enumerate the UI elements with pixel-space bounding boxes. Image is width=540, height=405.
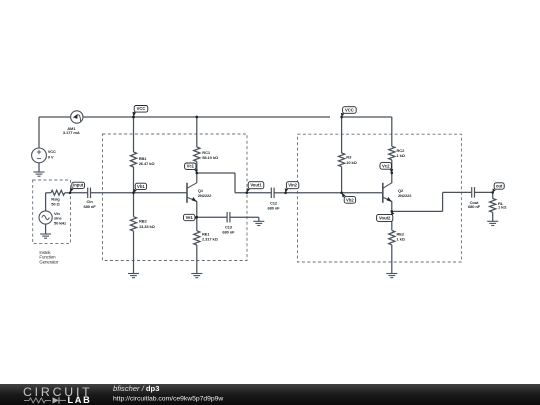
svg-text:Ve1: Ve1	[186, 215, 194, 220]
transistor Q1 2N2222	[187, 173, 212, 203]
wire RC1 top lead	[196, 117, 198, 147]
capacitor C13 680 nF	[222, 212, 235, 234]
wire input node to Cin	[70, 192, 88, 194]
svg-text:VCC: VCC	[48, 149, 56, 154]
svg-text:680 nF: 680 nF	[267, 205, 280, 210]
svg-text:680 nF: 680 nF	[468, 204, 481, 209]
svg-text:Vc1: Vc1	[187, 164, 195, 169]
wire RB1 to node Vb1	[133, 167, 135, 193]
resistor RB1 26.47 kOhm	[130, 152, 155, 167]
ground below RE1	[191, 274, 202, 278]
wire to Cout	[443, 191, 471, 193]
transistor Q2 2N2222	[383, 183, 412, 203]
wire Ve1 node to C13	[197, 216, 227, 218]
resistor RC1 58.19 kOhm	[194, 147, 219, 162]
wire RB1 top lead	[133, 117, 135, 152]
net flag Ve1	[184, 214, 199, 220]
wire Q1 emitter to Ve1 node	[196, 201, 198, 217]
CircuitLab logo text LAB	[68, 395, 92, 405]
svg-text:Vc2: Vc2	[382, 163, 390, 168]
wire C12 to Vin2 node	[275, 192, 286, 194]
ground below RB2	[128, 274, 139, 278]
net flag Vb2	[340, 192, 355, 204]
svg-text:3.177 mA: 3.177 mA	[63, 130, 80, 135]
wire Vout1 node to C12	[235, 192, 271, 194]
svg-text:58.19 kΩ: 58.19 kΩ	[202, 155, 219, 160]
wire RB2 top lead	[133, 193, 135, 217]
resistor RB2 13.33 kOhm	[130, 217, 155, 231]
CircuitLab logo resistor-diode squiggle	[24, 397, 66, 403]
resistor RL 1 kOhm	[490, 199, 508, 213]
footer url	[113, 396, 223, 403]
resistor R3 10 kOhm	[339, 153, 358, 167]
net flag out	[491, 183, 504, 194]
net flag Vout2	[377, 210, 395, 221]
ammeter AM1 3.177 mA	[63, 111, 83, 135]
svg-text:Generator: Generator	[39, 259, 59, 264]
wire RC2 to Q2 collector	[391, 160, 393, 183]
wire VCC source to rail	[38, 117, 40, 148]
wire Vout2 node to corner	[392, 210, 443, 212]
svg-text:13.33 kΩ: 13.33 kΩ	[139, 224, 156, 229]
svg-text:680 nF: 680 nF	[84, 204, 97, 209]
resistor RC2 1 kOhm	[389, 146, 406, 160]
ground below RE2	[386, 274, 397, 278]
junction at VCC flag 1	[132, 116, 135, 119]
wire RE1 top lead	[196, 217, 198, 231]
svg-text:50 Ω: 50 Ω	[51, 201, 60, 206]
net flag VCC at stage 2	[340, 107, 356, 119]
svg-text:1 kΩ: 1 kΩ	[397, 237, 406, 242]
svg-text:Vout1: Vout1	[250, 183, 262, 188]
svg-text:10 kΩ: 10 kΩ	[346, 160, 357, 165]
wire RE2 to ground	[391, 245, 393, 274]
wire RB2 to ground	[133, 231, 135, 273]
net flag Vin2	[284, 182, 298, 194]
wire corner up to output level	[442, 192, 444, 211]
resistor Rsig 50 Ohm	[51, 190, 65, 206]
svg-text:2N2222: 2N2222	[398, 193, 412, 198]
dashed enclosure stage 2 amplifier	[298, 134, 462, 262]
capacitor Cin 680 nF	[84, 188, 97, 209]
wire Q2 emitter to Vout2 node	[391, 201, 393, 211]
svg-text:9 V: 9 V	[48, 154, 54, 159]
svg-text:1 kΩ: 1 kΩ	[498, 205, 507, 210]
wire RE1 to ground	[196, 245, 198, 274]
svg-text:Vout2: Vout2	[379, 215, 391, 220]
svg-text:2.317 kΩ: 2.317 kΩ	[202, 237, 219, 242]
wire Cin to Vb1 node	[91, 192, 134, 194]
wire VCC source to ground	[38, 163, 40, 172]
wire VCC2 rail	[342, 116, 392, 118]
wire R3 top lead	[341, 117, 343, 153]
wire RC1 to collector node	[196, 162, 198, 174]
voltage source VCC 9V	[32, 148, 56, 163]
footer bar	[0, 384, 540, 405]
junction at RC1 rail tap	[195, 116, 198, 119]
ground below VCC source	[34, 172, 45, 176]
net flag input	[69, 182, 85, 194]
svg-text:bfischer / dp3: bfischer / dp3	[113, 384, 159, 393]
net flag Vb1	[132, 183, 146, 194]
wire Rsig right lead	[65, 192, 70, 194]
svg-text:50 kHz: 50 kHz	[54, 220, 66, 225]
capacitor C12 680 nF	[267, 188, 280, 211]
wire VCC top rail	[39, 116, 330, 118]
svg-text:VCC: VCC	[345, 107, 354, 112]
text Instek Function Generator	[39, 250, 59, 264]
capacitor Cout 680 nF	[468, 187, 481, 209]
resistor RE2 1 kOhm	[389, 230, 406, 244]
svg-text:Vin2: Vin2	[288, 183, 297, 188]
svg-text:Vb2: Vb2	[346, 197, 354, 202]
svg-text:VCC: VCC	[137, 106, 146, 111]
ground below Vin source	[40, 234, 51, 238]
svg-text:input: input	[73, 183, 84, 188]
ground right of C13	[253, 221, 264, 225]
ground below RL	[487, 221, 498, 225]
dashed enclosure stage 1 amplifier	[103, 134, 248, 261]
CircuitLab logo text CIRCUIT	[23, 385, 92, 399]
wire Vb1 node to Q1 base	[134, 192, 188, 194]
wire Vin source to ground	[45, 224, 47, 234]
wire Vin2 to Q2 base	[286, 192, 383, 194]
wire R3 to Vb2 node	[341, 167, 343, 193]
svg-text:680 nF: 680 nF	[222, 229, 235, 234]
svg-text:Vb1: Vb1	[137, 184, 145, 189]
net flag Vout1	[246, 182, 264, 194]
wire Vin source up	[45, 193, 47, 211]
dashed enclosure function generator	[33, 180, 71, 243]
wire Cout to out node	[475, 191, 493, 193]
svg-text:26.47 kΩ: 26.47 kΩ	[139, 161, 156, 166]
svg-text:2N2222: 2N2222	[198, 193, 212, 198]
wire Rsig left lead	[46, 192, 51, 194]
voltage source Vin sine	[39, 211, 66, 226]
svg-text:1 kΩ: 1 kΩ	[397, 153, 406, 158]
wire corner down to output level	[234, 173, 236, 193]
svg-text:http://circuitlab.com/ce9kw5p7: http://circuitlab.com/ce9kw5p7d9p9w	[113, 396, 223, 403]
net flag VCC at RB1	[132, 106, 148, 119]
resistor RE1 2.317 kOhm	[194, 231, 219, 245]
wire RC2 top lead	[391, 117, 393, 146]
svg-text:LAB: LAB	[68, 395, 92, 405]
wire RE2 top lead	[391, 211, 393, 230]
wire RL to ground	[492, 212, 494, 221]
net flag Vc2	[380, 163, 393, 175]
wire C13 to ground stub	[231, 217, 259, 221]
wire collector node to corner	[197, 172, 235, 174]
svg-text:out: out	[496, 183, 503, 188]
wire RL top lead	[492, 192, 494, 198]
net flag Vc1	[185, 163, 199, 174]
footer text bfischer / dp3	[113, 384, 159, 393]
